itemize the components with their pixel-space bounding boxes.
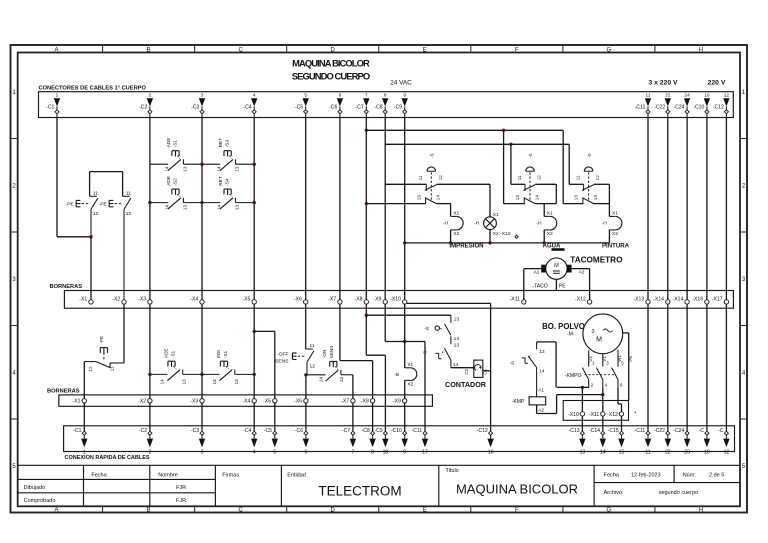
wire -X10 to -C12 column	[407, 302, 491, 304]
svg-text:2: 2	[149, 92, 152, 98]
upper terminal strip box	[64, 291, 733, 309]
svg-text:-C: -C	[699, 428, 705, 434]
bottom connector -C5 pin 5	[273, 431, 277, 435]
svg-text:13: 13	[574, 195, 579, 201]
bottom connector -C10 pin 9	[403, 431, 407, 435]
svg-text:CONECTORES DE CABLES 1° CUERPO: CONECTORES DE CABLES 1° CUERPO	[39, 85, 147, 91]
svg-text:11: 11	[126, 191, 131, 197]
svg-text:-C6: -C6	[329, 104, 337, 110]
upper strip terminal -X16	[705, 300, 709, 304]
svg-text:14: 14	[217, 166, 222, 172]
contact 11-12 AGUA	[524, 184, 526, 191]
svg-text:-KMPO: -KMPO	[565, 373, 582, 379]
svg-text:-H: -H	[443, 220, 449, 226]
coil -KMP	[529, 397, 546, 405]
contact 11-12 IMPRESION	[425, 184, 427, 191]
wire IMPRESION 11 feed	[385, 183, 426, 185]
svg-text:11: 11	[110, 366, 115, 371]
wire AGUA lamp drop	[543, 204, 545, 217]
counter device	[474, 360, 483, 377]
svg-text:F: F	[515, 508, 519, 514]
svg-text:2: 2	[591, 382, 594, 387]
node -X8 contador feed	[365, 314, 368, 317]
upper strip terminal -X5	[252, 300, 256, 304]
actuator dashed link IMPRESION	[430, 172, 432, 200]
motor M 3~ BO POLVO	[583, 314, 623, 354]
svg-text:-PE: -PE	[99, 336, 104, 344]
wire tacometro PE	[555, 279, 557, 290]
svg-text:1: 1	[56, 92, 59, 98]
svg-text:12: 12	[724, 92, 730, 98]
svg-text:-C10: -C10	[693, 104, 704, 110]
svg-text:-X8: -X8	[355, 297, 363, 303]
svg-text:-X11: -X11	[510, 297, 521, 303]
svg-text:D: D	[331, 47, 336, 53]
svg-text:13: 13	[580, 450, 586, 456]
wire -C9 drop to -X10	[404, 118, 406, 300]
svg-text:-C22: -C22	[654, 428, 665, 434]
node -C7 tap IMPRESION 13 feed	[365, 202, 368, 205]
lower strip terminal -X6	[304, 399, 308, 403]
svg-text:14: 14	[319, 376, 324, 382]
wire -PE branch top bar	[90, 171, 123, 173]
svg-text:11: 11	[646, 92, 651, 98]
svg-text:14: 14	[164, 205, 169, 211]
wire -B to lower -X9	[404, 380, 406, 398]
svg-text:-X17: -X17	[712, 297, 723, 303]
wire -PE band to lower -X1	[83, 362, 85, 399]
svg-text:13: 13	[454, 317, 460, 323]
svg-text:D: D	[331, 508, 336, 514]
svg-text:17: 17	[422, 450, 428, 456]
svg-text:A2: A2	[579, 270, 585, 276]
svg-text:-S: -S	[430, 153, 435, 158]
limit switch -S4 RET	[202, 202, 220, 204]
bottom connector -C12 pin 16	[489, 431, 493, 435]
frame column ticks top	[102, 45, 104, 53]
band contact -S1 ADE	[148, 373, 151, 376]
upper strip terminal -X11	[522, 300, 526, 304]
svg-text:X1: X1	[453, 211, 459, 217]
bottom connector -C pin 10	[705, 431, 709, 435]
svg-text:-C2: -C2	[139, 428, 147, 434]
actuator dashed link AGUA	[529, 172, 531, 200]
svg-text:14: 14	[454, 336, 460, 342]
contact 13-14 PINTURA	[582, 198, 584, 204]
svg-text:-H: -H	[602, 220, 608, 226]
speck	[635, 412, 637, 414]
lower strip terminal -X7	[351, 399, 355, 403]
svg-text:-S: -S	[528, 153, 533, 158]
svg-text:G: G	[607, 508, 612, 514]
svg-text:11: 11	[418, 175, 423, 180]
svg-text:-X12: -X12	[575, 297, 586, 303]
terminal A1 tacometro	[541, 265, 546, 273]
wire -C6 drop to -X7	[339, 118, 341, 300]
contactor -KMPO pole 3-4	[596, 368, 602, 380]
svg-text:TACOMETRO: TACOMETRO	[570, 255, 623, 264]
svg-text:5: 5	[273, 450, 276, 456]
svg-text:4: 4	[605, 382, 608, 387]
wire -X9 horizontal to -C11 column	[385, 341, 425, 343]
node return AGUA lamp	[543, 241, 546, 244]
bottom connector -C3 pin 3	[200, 431, 204, 435]
svg-text:12: 12	[595, 175, 600, 181]
lower strip terminal -X2	[148, 399, 152, 403]
lamp return wire to -C9	[405, 242, 610, 244]
svg-text:-X11: -X11	[589, 412, 600, 418]
svg-text:12-feb-2023: 12-feb-2023	[631, 473, 661, 479]
upper strip terminal -X17	[724, 300, 728, 304]
push button -S head AGUA	[526, 167, 535, 171]
svg-text:-X1: -X1	[73, 398, 81, 404]
bottom connector -C11 pin 17	[423, 431, 427, 435]
upper strip terminal -X1	[89, 300, 93, 304]
svg-text:Núm:: Núm:	[683, 473, 697, 479]
lamp -H AGUA	[544, 215, 550, 217]
svg-text:-S3: -S3	[225, 140, 231, 148]
svg-text:-C1: -C1	[46, 104, 54, 110]
svg-text:-C: -C	[718, 428, 724, 434]
svg-text:3: 3	[606, 360, 609, 365]
svg-text:RET: RET	[218, 138, 224, 148]
wire -C1 horizontal to -PE branch	[57, 236, 90, 238]
push button -S head PINTURA	[584, 167, 593, 171]
svg-text:13: 13	[539, 349, 545, 355]
svg-text:ING: ING	[216, 349, 221, 358]
lower strip terminal -X8	[370, 399, 374, 403]
svg-text:-C3: -C3	[191, 428, 199, 434]
wire -PE left leg to -X1	[90, 237, 92, 300]
svg-text:-C12: -C12	[477, 428, 488, 434]
svg-text:G: G	[607, 47, 612, 53]
svg-text:11: 11	[93, 191, 98, 197]
wire -C10 long drop	[706, 118, 708, 300]
wire upper -X3 to lower -X2	[149, 304, 151, 399]
svg-text:16: 16	[488, 450, 494, 456]
svg-text:12: 12	[537, 175, 542, 181]
svg-text:1: 1	[592, 360, 595, 365]
svg-text:11: 11	[575, 175, 580, 180]
node S2 junction at -C2	[148, 201, 151, 204]
wire upper -X9 drop	[384, 304, 386, 341]
upper strip terminal -X7	[338, 300, 342, 304]
svg-text:X2: X2	[547, 231, 553, 237]
svg-text:10: 10	[704, 92, 710, 98]
svg-text:BO. POLVO: BO. POLVO	[542, 322, 585, 331]
contact -ON SENS (NO)	[306, 374, 326, 376]
lower strip terminal -X5	[273, 399, 277, 403]
svg-text:24 VAC: 24 VAC	[390, 80, 412, 87]
svg-text:-PE: -PE	[66, 202, 75, 208]
svg-text:PINTURA: PINTURA	[602, 243, 630, 250]
svg-text:18: 18	[383, 450, 389, 456]
wire -C22 long drop	[667, 118, 669, 300]
svg-text:Titulo: Titulo	[446, 468, 459, 474]
svg-text:14: 14	[534, 195, 539, 201]
wire upper -X8 jog to -C9 column	[366, 354, 385, 356]
svg-text:RET: RET	[218, 176, 224, 186]
node at -B top	[403, 340, 406, 343]
svg-text:4: 4	[253, 92, 256, 98]
wire tacometro A1 to -X11	[524, 268, 541, 270]
svg-text:-S: -S	[424, 326, 430, 332]
svg-text:14: 14	[212, 379, 217, 385]
svg-text:E: E	[423, 47, 427, 53]
bottom connector -C1 pin 1	[82, 431, 86, 435]
svg-text:Nombre: Nombre	[158, 472, 178, 478]
svg-text:-TACO: -TACO	[532, 283, 548, 289]
svg-text:13: 13	[235, 205, 240, 211]
motor terminal U1	[588, 350, 590, 366]
contact -PE band (NC 11-12 vertical)	[110, 362, 124, 364]
svg-text:13: 13	[182, 166, 187, 172]
svg-text:-X14: -X14	[653, 297, 664, 303]
band contact -S1 ING	[200, 373, 203, 376]
title block grid	[18, 464, 740, 466]
upper strip terminal -X8	[364, 300, 368, 304]
wire AGUA 12 out	[535, 183, 556, 185]
svg-text:9: 9	[403, 450, 406, 456]
frame column ticks bottom	[102, 506, 104, 512]
upper strip terminal -X13	[646, 300, 650, 304]
svg-text:MAQUINA BICOLOR: MAQUINA BICOLOR	[456, 482, 578, 497]
svg-text:Comprobado: Comprobado	[24, 498, 56, 504]
upper strip terminal -X2	[122, 300, 126, 304]
svg-text:-C4: -C4	[243, 428, 251, 434]
wire A drop to PINTURA contact 13	[562, 130, 564, 203]
node return IMPRESION buzzer	[449, 241, 452, 244]
svg-text:14: 14	[217, 205, 222, 211]
svg-text:-X1: -X1	[79, 297, 87, 303]
wire -X2 to -PE band contact	[123, 304, 125, 363]
svg-text:A1: A1	[534, 270, 540, 276]
svg-text:-C8: -C8	[374, 104, 382, 110]
svg-text:C: C	[238, 47, 243, 53]
svg-text:FJR: FJR	[176, 498, 186, 504]
svg-text:7: 7	[365, 92, 368, 98]
svg-text:ADE: ADE	[164, 349, 169, 358]
svg-text:13: 13	[515, 195, 520, 201]
svg-text:-X10: -X10	[390, 297, 401, 303]
svg-text:14: 14	[160, 379, 165, 385]
svg-text:-B: -B	[394, 372, 399, 378]
svg-text:6: 6	[304, 450, 307, 456]
svg-text:-X4: -X4	[190, 297, 198, 303]
svg-text:-C5: -C5	[264, 428, 272, 434]
contactor -KMPO linkage	[585, 374, 616, 376]
contact 13-14 AGUA	[523, 198, 525, 204]
wire upper -X5 to lower -X4	[253, 304, 255, 399]
svg-text:F: F	[515, 47, 519, 53]
upper strip terminal -X3	[148, 300, 152, 304]
wire branch to lower -X5	[254, 330, 275, 332]
wire upper -X10 drop to -B	[404, 304, 406, 368]
wire -KMP A2 return	[536, 405, 538, 414]
lamp -H X10 IMPRESION	[484, 217, 497, 230]
wire counter to -C12 column	[483, 370, 491, 372]
svg-text:-M·: -M·	[567, 331, 575, 337]
box terminal -X10	[580, 412, 584, 416]
wire pole4 to -X11 terminal	[602, 388, 604, 412]
wire PINTURA 12 out	[594, 183, 610, 185]
svg-text:12: 12	[724, 450, 730, 456]
svg-text:Fecha: Fecha	[604, 473, 620, 479]
wire -C24 long drop	[686, 118, 688, 300]
wire PINTURA lamp drop	[608, 204, 610, 217]
svg-text:-X9: -X9	[393, 398, 401, 404]
node wire A from -C7	[365, 129, 368, 132]
wire -C5 drop to -X6	[305, 118, 307, 300]
svg-text:13: 13	[339, 376, 344, 382]
svg-text:X1: X1	[493, 212, 499, 218]
bottom connector -C11 pin 11	[646, 431, 650, 435]
svg-text:11: 11	[517, 175, 522, 180]
svg-text:24: 24	[684, 92, 690, 98]
wire IMPRESION 12 out	[437, 183, 490, 185]
inner border frame	[18, 53, 740, 507]
svg-text:-H: -H	[474, 220, 480, 226]
svg-text:15: 15	[619, 450, 625, 456]
wire -ON SENS to lower -X7	[352, 375, 354, 399]
contact -S roller (counter input 1)	[450, 315, 452, 323]
svg-text:X2: X2	[407, 381, 413, 387]
bottom connector -C9 pin 18	[383, 431, 387, 435]
svg-text:A: A	[55, 508, 59, 514]
node S4 junction at -C4	[253, 201, 256, 204]
svg-text:-C9: -C9	[394, 104, 402, 110]
lower strip terminal -X9	[403, 399, 407, 403]
svg-text:22: 22	[665, 92, 671, 98]
node return IMPRESION lamp	[488, 241, 491, 244]
svg-text:-X7: -X7	[341, 398, 349, 404]
svg-text:Firmas: Firmas	[222, 472, 239, 478]
svg-text:14: 14	[164, 166, 169, 172]
svg-text:10: 10	[704, 450, 710, 456]
motor terminal W1	[617, 350, 619, 367]
contact -S flow (KMP control)	[536, 342, 538, 349]
svg-text:13: 13	[454, 343, 460, 349]
wire motor PE	[623, 332, 629, 334]
terminal box -X10 -X11 -X12	[563, 401, 628, 421]
svg-text:-S2: -S2	[173, 178, 179, 186]
svg-text:A2: A2	[538, 408, 544, 414]
svg-text:-X16: -X16	[692, 297, 703, 303]
svg-text:220 V: 220 V	[708, 80, 726, 87]
node S2-S4 junction at -C3	[200, 201, 203, 204]
node wire A tap for AGUA	[502, 129, 505, 132]
svg-text:-C12: -C12	[713, 104, 724, 110]
svg-text:12: 12	[88, 366, 93, 372]
node wire B from -C8	[385, 143, 569, 145]
svg-text:Archivo:: Archivo:	[604, 490, 624, 496]
svg-text:14: 14	[600, 450, 606, 456]
wire KMP branch feed U	[537, 341, 557, 343]
motor M tacometro	[546, 258, 567, 279]
upper strip terminal -X9	[383, 300, 387, 304]
svg-text:E: E	[423, 508, 427, 514]
svg-text:-C9: -C9	[374, 428, 382, 434]
contact 11-12 PINTURA	[583, 184, 585, 191]
svg-text:X1: X1	[612, 211, 618, 217]
bottom connector -C22 pin 22	[666, 431, 670, 435]
svg-text:TELECTROM: TELECTROM	[318, 484, 401, 499]
node -OFF SENS out	[304, 373, 307, 376]
svg-text:-S1: -S1	[171, 350, 176, 358]
svg-text:7: 7	[351, 450, 354, 456]
svg-text:12: 12	[126, 211, 132, 217]
node S3 junction at -C4	[253, 163, 256, 166]
bottom connector -C pin 12	[724, 431, 728, 435]
svg-text:-X3: -X3	[190, 398, 198, 404]
svg-text:-PE: -PE	[99, 202, 108, 208]
svg-text:11: 11	[645, 450, 650, 456]
svg-text:PE: PE	[628, 356, 633, 362]
wire tacometro A2 to -X12	[572, 268, 590, 270]
svg-text:8: 8	[371, 450, 374, 456]
svg-text:-S: -S	[587, 153, 592, 158]
wire AGUA 11 feed	[510, 144, 512, 184]
svg-text:H: H	[699, 508, 703, 514]
actuator -PE left	[76, 200, 80, 206]
svg-text:3: 3	[201, 450, 204, 456]
svg-text:-C2: -C2	[139, 104, 147, 110]
svg-text:23: 23	[684, 450, 690, 456]
bottom connector -C2 pin 2	[148, 431, 152, 435]
svg-text:-C1: -C1	[73, 428, 81, 434]
wires lower strip to bottom connector box	[83, 403, 85, 431]
svg-text:-X9: -X9	[373, 297, 381, 303]
svg-text:14: 14	[436, 195, 441, 201]
svg-text:-ON: -ON	[322, 350, 327, 358]
svg-text:-OFF: -OFF	[277, 352, 288, 358]
svg-text:-S1: -S1	[223, 350, 228, 358]
svg-text:12: 12	[310, 364, 316, 370]
black bar under AGUA	[552, 248, 565, 251]
svg-text:12: 12	[438, 175, 443, 181]
svg-text:12: 12	[93, 211, 99, 217]
svg-text:ADE: ADE	[166, 176, 172, 186]
svg-text:5: 5	[621, 360, 624, 365]
motor terminal V1	[602, 354, 604, 367]
buzzer -H IMPRESION	[451, 215, 457, 217]
svg-text:Entidad: Entidad	[287, 472, 306, 478]
svg-text:-C4: -C4	[243, 104, 251, 110]
wire -C12 long drop	[725, 118, 727, 300]
upper strip terminal -X10	[403, 300, 407, 304]
bottom connector -C6 pin 6	[304, 431, 308, 435]
bottom connector -C4 pin 4	[252, 431, 256, 435]
wire AGUA 13 feed	[503, 130, 505, 203]
svg-text:6: 6	[339, 92, 342, 98]
box terminal -X11	[601, 412, 605, 416]
top connector bus box	[39, 92, 734, 118]
svg-text:9: 9	[403, 92, 406, 98]
svg-text:-C14: -C14	[589, 428, 600, 434]
upper strip terminal -X14	[666, 300, 670, 304]
svg-text:-C11: -C11	[412, 428, 423, 434]
wire pole2 to -X10 terminal	[588, 386, 590, 389]
wire AGUA 14 out	[535, 203, 556, 205]
svg-text:4: 4	[253, 450, 256, 456]
wire -C1 drop	[56, 118, 58, 237]
svg-text:-C8: -C8	[362, 428, 370, 434]
svg-text:-X10: -X10	[568, 412, 579, 418]
lamp -H PINTURA	[609, 215, 615, 217]
svg-text:X2: X2	[612, 231, 618, 237]
svg-text:-X6: -X6	[294, 297, 302, 303]
svg-text:-C15: -C15	[608, 428, 619, 434]
